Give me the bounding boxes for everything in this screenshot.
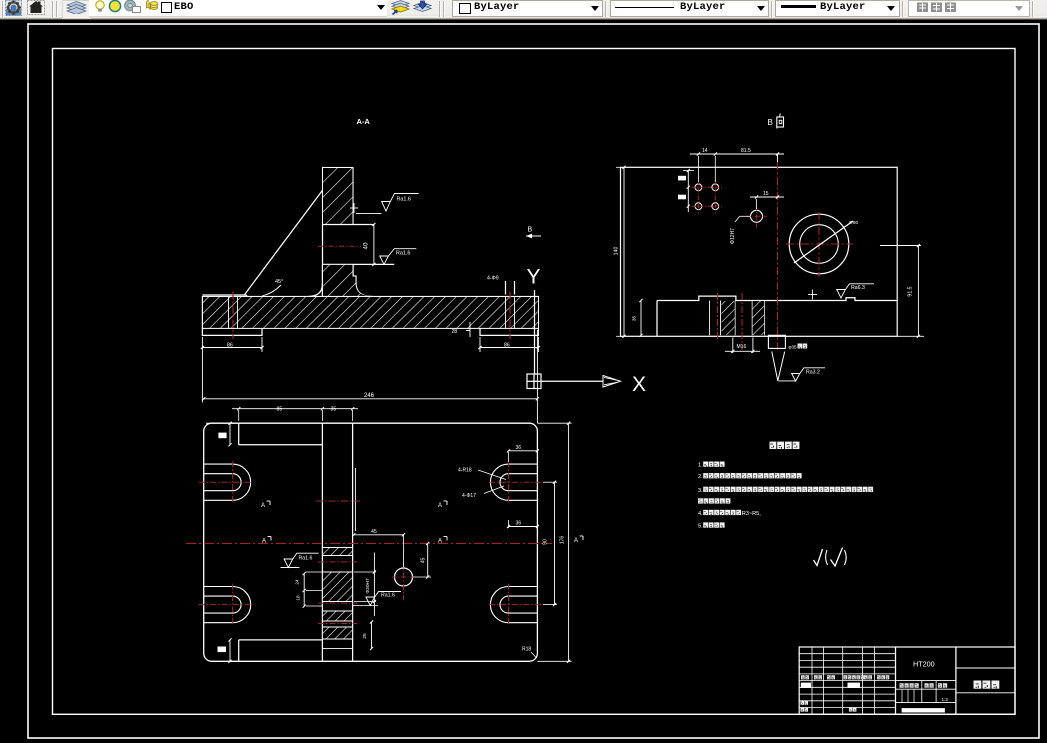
svg-text:Φ60: Φ60 (849, 220, 858, 226)
svg-text:36: 36 (516, 445, 522, 451)
svg-text:HT200: HT200 (913, 660, 935, 669)
svg-text:A: A (438, 539, 442, 545)
svg-text:28: 28 (452, 329, 458, 335)
svg-text:14: 14 (702, 148, 708, 154)
svg-text:Φ12H7: Φ12H7 (730, 228, 736, 244)
svg-text:86: 86 (227, 343, 233, 349)
svg-text:24: 24 (295, 579, 300, 585)
svg-text:B: B (528, 227, 533, 234)
svg-text:2.: 2. (698, 474, 703, 480)
svg-text:85: 85 (277, 406, 283, 412)
svg-text:40: 40 (363, 242, 370, 249)
svg-text:Ra1.6: Ra1.6 (396, 251, 410, 257)
svg-text:A: A (261, 503, 265, 509)
svg-text:15: 15 (763, 191, 769, 197)
svg-text:R3~R5,: R3~R5, (742, 511, 762, 517)
svg-text:4-Φ9: 4-Φ9 (487, 276, 499, 282)
svg-text:45°: 45° (275, 279, 283, 285)
svg-text:86: 86 (504, 343, 510, 349)
svg-text:45: 45 (371, 529, 377, 535)
svg-text:18: 18 (296, 595, 301, 601)
svg-text:90: 90 (543, 539, 549, 545)
svg-text:Ra1.6: Ra1.6 (299, 556, 313, 562)
svg-text:Y: Y (527, 266, 541, 289)
svg-text:91.5: 91.5 (908, 286, 914, 296)
svg-text:M16: M16 (737, 344, 747, 350)
svg-text:A: A (574, 538, 578, 544)
svg-text:A-A: A-A (357, 117, 371, 126)
svg-text:176: 176 (560, 536, 566, 545)
svg-text:25: 25 (362, 633, 368, 639)
svg-text:3.: 3. (698, 488, 703, 494)
svg-text:5.: 5. (698, 524, 703, 530)
svg-text:4.: 4. (698, 511, 703, 517)
svg-text:R18: R18 (522, 647, 531, 653)
svg-text:35: 35 (331, 406, 337, 412)
svg-text:4-R18: 4-R18 (458, 468, 472, 474)
svg-text:X: X (632, 373, 646, 396)
svg-text:Ra3.2: Ra3.2 (806, 370, 820, 376)
svg-text:B: B (768, 118, 773, 127)
svg-text:36: 36 (516, 521, 522, 527)
svg-text:Φ30H7: Φ30H7 (365, 578, 371, 594)
svg-text:Ra1.6: Ra1.6 (397, 197, 411, 203)
svg-text:81.5: 81.5 (741, 148, 751, 154)
svg-text:4-Φ17: 4-Φ17 (462, 493, 476, 499)
svg-text:Ra1.6: Ra1.6 (381, 592, 395, 598)
svg-text:1.: 1. (698, 463, 703, 469)
svg-text:140: 140 (614, 247, 620, 256)
svg-text:A: A (262, 539, 266, 545)
svg-text:1:2: 1:2 (942, 697, 949, 702)
svg-text:35: 35 (632, 316, 638, 322)
svg-text:Ra6.3: Ra6.3 (851, 285, 865, 291)
svg-text:φ35: φ35 (789, 345, 798, 350)
svg-text:45: 45 (421, 558, 427, 564)
svg-text:246: 246 (364, 393, 375, 399)
svg-text:A: A (438, 503, 442, 509)
